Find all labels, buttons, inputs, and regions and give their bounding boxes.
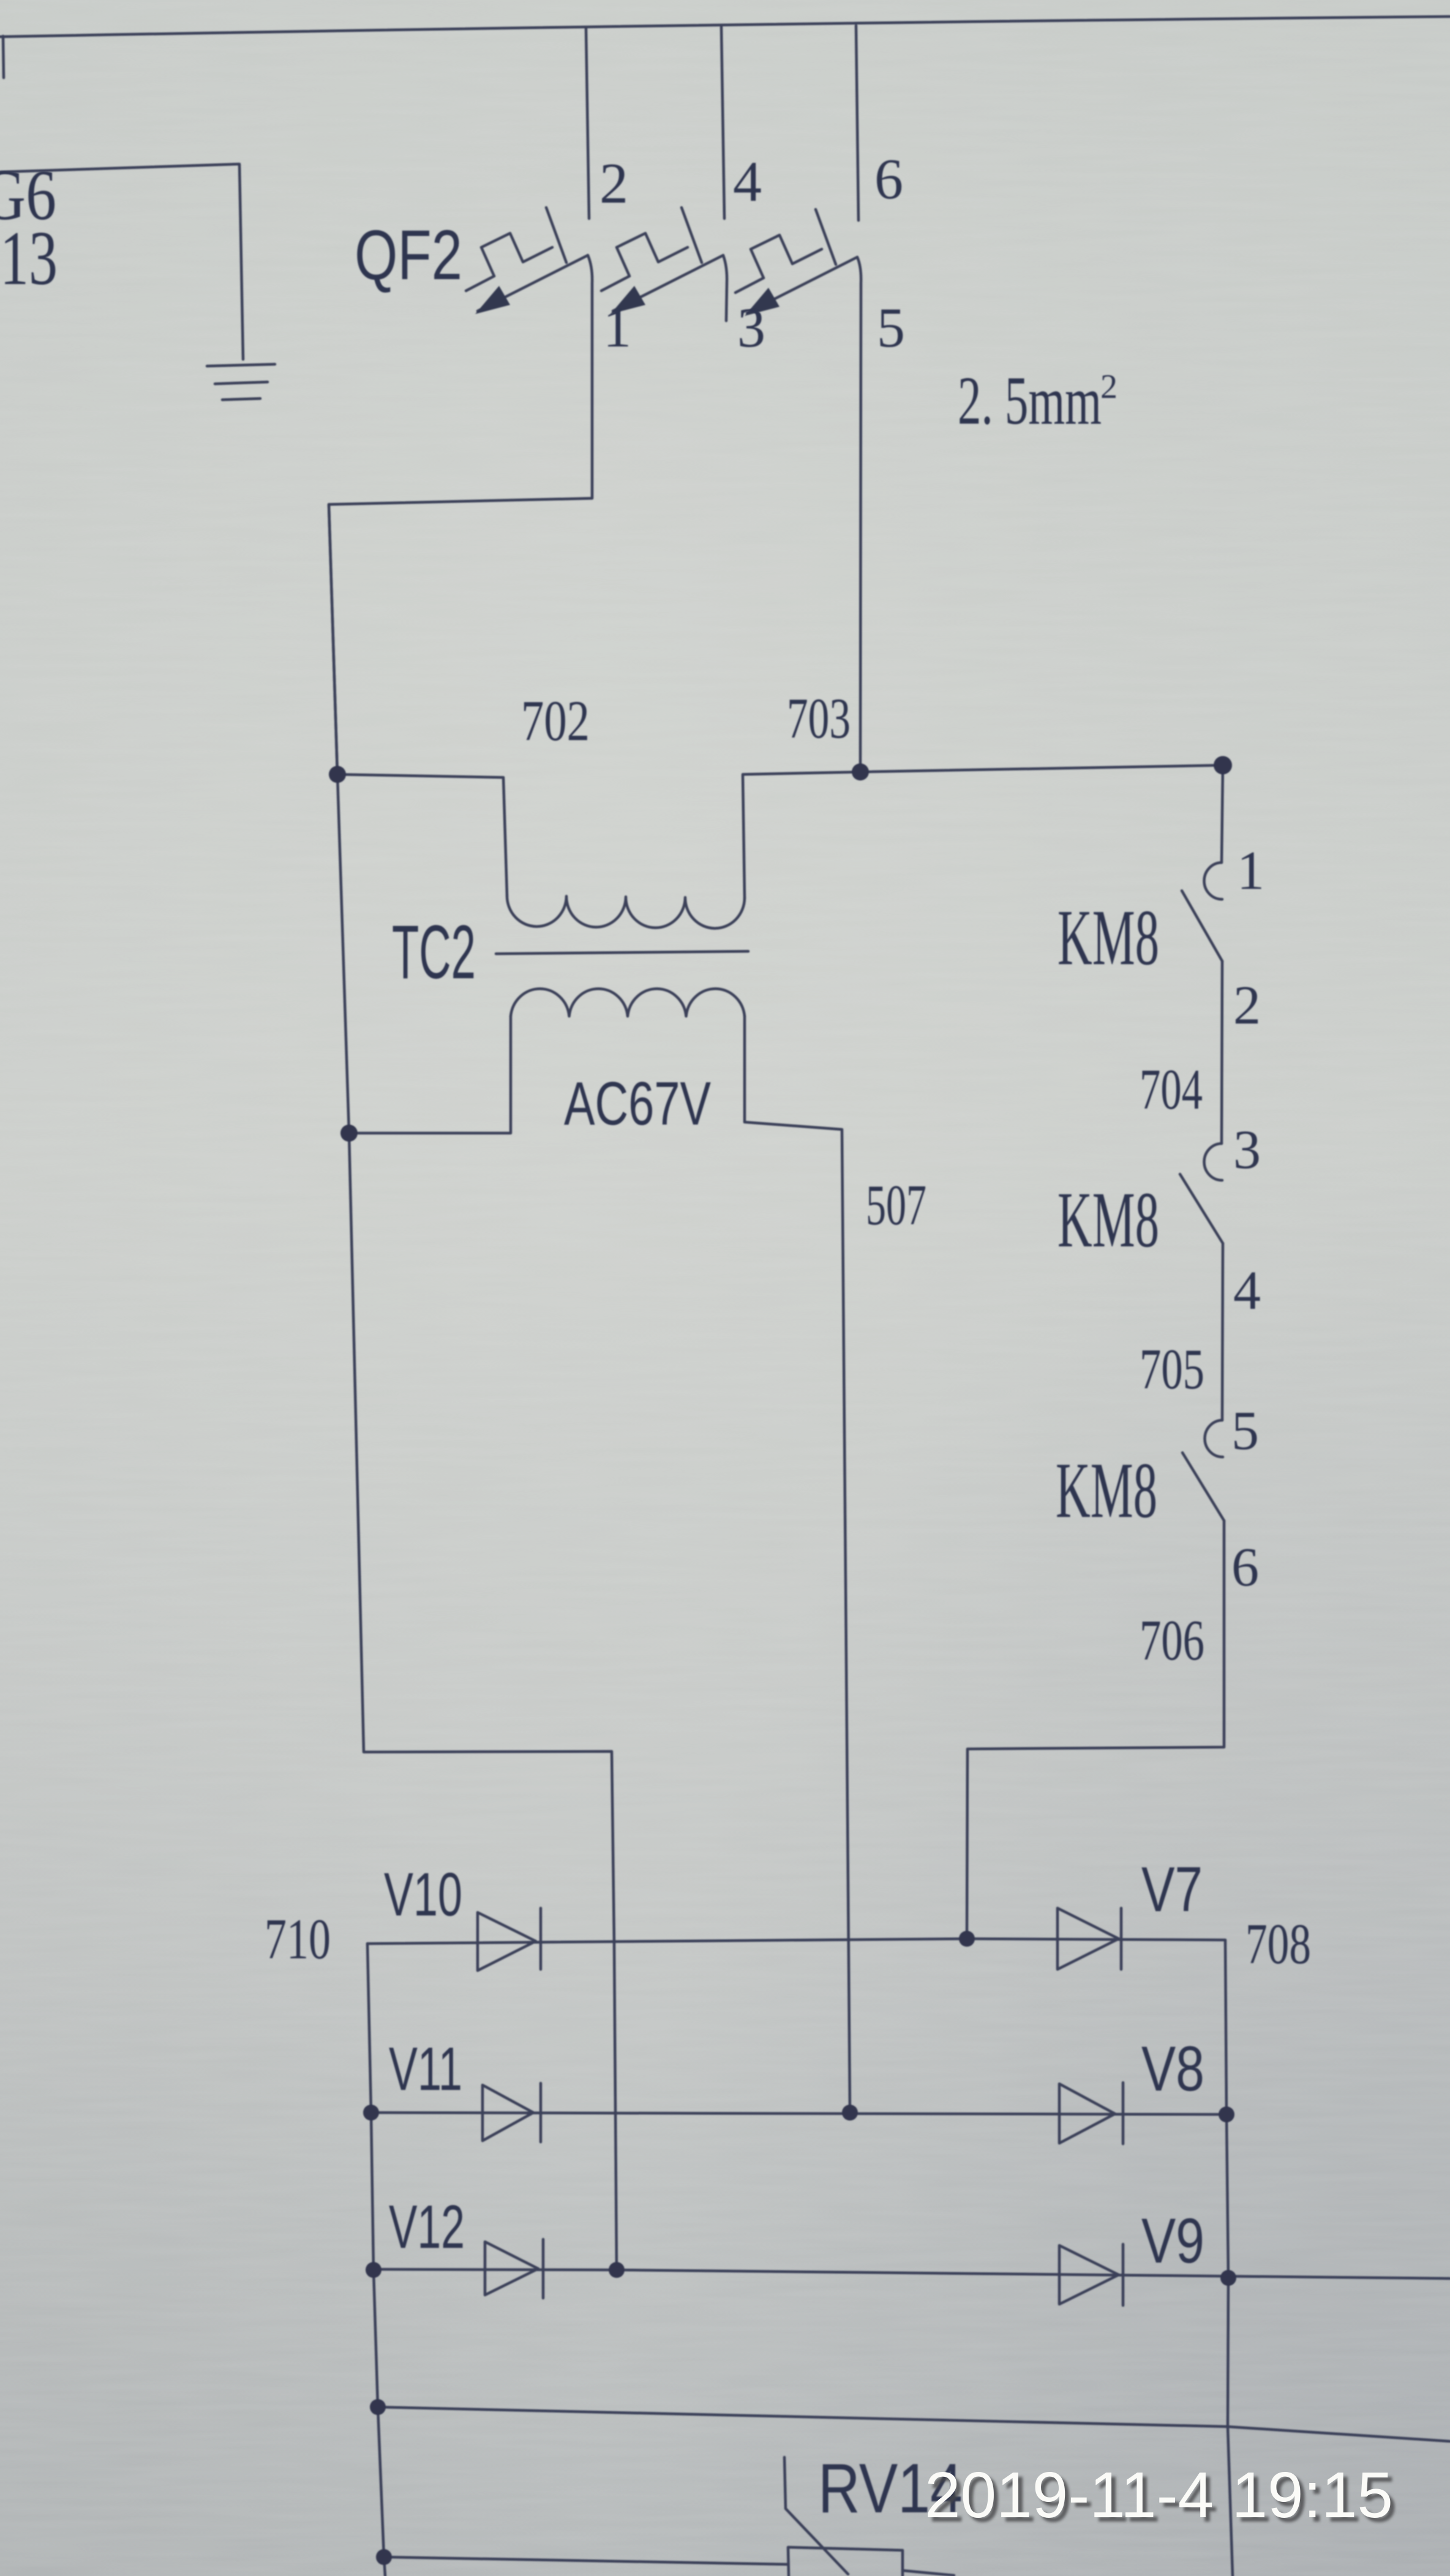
contact KM8 1-2	[1204, 863, 1222, 899]
transformer TC2 core	[496, 951, 748, 954]
wire: bottom bus 2 right segment	[903, 2570, 954, 2575]
breaker QF2 pole 1	[466, 208, 588, 314]
svg-text:V10: V10	[384, 1860, 462, 1929]
svg-text:705: 705	[1140, 1338, 1204, 1401]
diode V9	[1059, 2245, 1119, 2304]
node 703	[852, 763, 869, 781]
diode V12	[485, 2242, 538, 2295]
svg-text:V9: V9	[1141, 2206, 1204, 2277]
ground bar 2	[215, 382, 268, 384]
wire: left rail	[329, 504, 617, 2270]
node 507 end	[842, 2105, 858, 2121]
wire: KM8 chain from node 703	[1222, 765, 1223, 863]
wire: pole3 out down to node 703	[857, 257, 861, 772]
transformer TC2 secondary winding	[511, 989, 745, 1016]
node 708 V8	[1219, 2106, 1234, 2122]
svg-text:KM8: KM8	[1056, 1447, 1157, 1535]
diode V7	[1057, 1908, 1119, 1969]
wire: pole1 out, step down-left to node 702	[329, 255, 592, 774]
node 702	[329, 766, 346, 783]
svg-text:QF2: QF2	[355, 216, 462, 294]
svg-text:3: 3	[737, 296, 765, 359]
diode V11	[483, 2085, 533, 2141]
wire: top-left stub	[3, 36, 4, 78]
wire 706 down and left to V7 row	[967, 1521, 1224, 1939]
svg-text:2: 2	[1100, 368, 1118, 406]
camera timestamp	[925, 2459, 1397, 2536]
wire: V10/V7 row (710/708)	[367, 1939, 1233, 2576]
node KM8 top	[1214, 756, 1232, 774]
svg-text:KM8: KM8	[1057, 1176, 1159, 1264]
svg-text:13: 13	[0, 216, 58, 301]
wire: V12/V9 row	[374, 2269, 1450, 2278]
wire 705	[1222, 1243, 1223, 1420]
wire: pole2 stub (terminal 3)	[723, 255, 727, 321]
svg-text:2: 2	[1233, 975, 1261, 1036]
svg-text:V11: V11	[389, 2035, 462, 2103]
wire: top bus	[0, 17, 1450, 37]
svg-text:V12: V12	[389, 2193, 465, 2261]
svg-text:6: 6	[874, 148, 903, 211]
wire: TC2 primary right lead + node 703 run	[743, 765, 1223, 898]
svg-text:4: 4	[1233, 1260, 1261, 1321]
node secondary-left	[340, 1125, 358, 1142]
svg-text:1: 1	[1237, 841, 1264, 901]
svg-text:V7: V7	[1141, 1854, 1203, 1925]
svg-text:704: 704	[1140, 1058, 1203, 1121]
svg-text:3: 3	[1233, 1120, 1261, 1180]
wire: bottom bus 2	[384, 2557, 788, 2564]
transformer TC2 primary winding	[507, 896, 745, 928]
varistor RV14 body	[788, 2547, 903, 2576]
svg-text:710: 710	[265, 1908, 331, 1971]
node row3 mid	[609, 2262, 625, 2278]
svg-text:507: 507	[866, 1174, 926, 1237]
wire: secondary right lead, node 507 down to V8 row	[745, 1016, 850, 2113]
diode V8	[1059, 2084, 1115, 2143]
svg-text:KM8: KM8	[1057, 894, 1159, 982]
wire: QF2 pole 3 top (terminal 6)	[856, 26, 858, 220]
svg-text:2019-11-4 19:15: 2019-11-4 19:15	[925, 2459, 1393, 2531]
svg-text:2. 5mm: 2. 5mm	[958, 363, 1102, 439]
svg-text:AC67V: AC67V	[564, 1069, 711, 1138]
svg-text:5: 5	[877, 296, 905, 359]
svg-text:1: 1	[603, 296, 631, 359]
breaker QF2 pole 2	[601, 208, 723, 314]
node row1 KM8	[959, 1931, 975, 1947]
wire: QF2 pole 1 top (terminal 2)	[586, 28, 589, 219]
diode V10	[478, 1912, 536, 1971]
node row3 left	[366, 2262, 381, 2278]
node 708 V9	[1220, 2270, 1236, 2286]
wire: bottom bus 1	[378, 2407, 1450, 2441]
wire: secondary left lead to left rail	[349, 1016, 511, 1133]
svg-text:5: 5	[1231, 1401, 1259, 1461]
svg-text:4: 4	[733, 150, 762, 214]
svg-text:706: 706	[1140, 1609, 1204, 1672]
svg-text:702: 702	[521, 689, 590, 753]
breaker QF2 pole 3	[735, 209, 857, 316]
svg-text:2: 2	[599, 152, 628, 215]
node bottom bus 2	[376, 2549, 392, 2565]
contact KM8 3-4	[1204, 1144, 1222, 1180]
svg-text:703: 703	[787, 687, 851, 751]
wire 704	[1222, 961, 1222, 1144]
node row2 left	[363, 2105, 379, 2121]
svg-text:6: 6	[1231, 1537, 1259, 1598]
contact KM8 5-6	[1205, 1420, 1223, 1457]
varistor RV14 lead	[784, 2457, 848, 2574]
svg-text:TC2: TC2	[392, 910, 476, 995]
wire: ground branch horizontal+vertical	[0, 164, 243, 359]
svg-text:708: 708	[1245, 1912, 1311, 1976]
svg-text:V8: V8	[1141, 2034, 1204, 2105]
node bottom bus 1	[370, 2399, 386, 2415]
ground bar 3	[222, 399, 260, 400]
wire: QF2 pole 2 top (terminal 4)	[721, 27, 724, 219]
ground bar 1	[207, 364, 275, 366]
wire: left low rail	[367, 1944, 385, 2576]
wire: node 702 run + TC2 primary left lead	[337, 774, 507, 896]
wire: V11/V8 row	[371, 2113, 1226, 2114]
